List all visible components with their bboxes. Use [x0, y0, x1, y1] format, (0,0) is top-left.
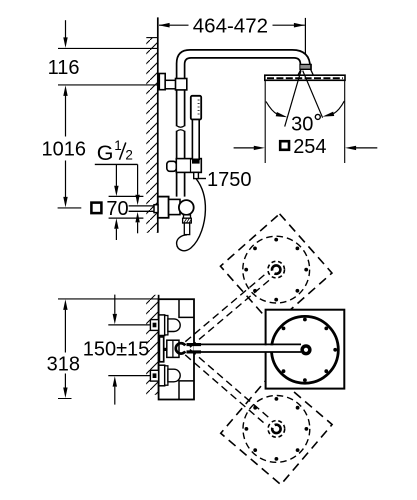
riser pipe lower segment: [177, 131, 185, 197]
riser pipe break joint: [177, 126, 185, 132]
valve body (side view): [169, 199, 180, 214]
slider block on rail: [167, 161, 177, 171]
supply pipe in wall: [129, 206, 154, 211]
dashed hub upper: [268, 261, 285, 278]
pivot ring: [176, 343, 185, 353]
supply fitting bottom: flange: [159, 365, 165, 386]
svg-text:1016: 1016: [42, 139, 87, 161]
svg-text:150±15: 150±15: [83, 339, 150, 361]
dimension 318 ticks: [58, 299, 159, 399]
dashed head circle upper: [243, 236, 310, 303]
hose outlet stem: [184, 215, 191, 218]
svg-text:G: G: [97, 141, 114, 165]
supply fitting top: flange: [159, 315, 165, 336]
dimension 464-472 extension line right: [304, 18, 306, 54]
pivot bracket: [167, 340, 179, 357]
hand shower nut: [192, 159, 200, 163]
valve body (plan view): [159, 299, 194, 399]
svg-text:254: 254: [293, 136, 326, 158]
label 1750 leader: [198, 178, 206, 180]
shower arm and riser pipe outline: [177, 50, 311, 126]
supply fitting top: escutcheon bell: [168, 319, 180, 332]
dimension 150+-15 extension lines: [108, 325, 150, 376]
supply fitting top: bolt: [150, 320, 158, 331]
supply fitting bottom: bolt: [150, 370, 158, 381]
svg-text:464-472: 464-472: [193, 15, 268, 38]
swivel angle arc arrow right: [334, 101, 345, 114]
square symbol of 254: [280, 141, 289, 150]
G 1/2 dimension line: [137, 164, 139, 194]
swivel angle fan lines: [285, 71, 323, 127]
label G 1/2 underline: [95, 163, 138, 165]
dimension 150+-15 line with arrows: [114, 295, 116, 314]
wall hatching (plan view): [146, 295, 158, 395]
dimension 254 arrows: [234, 147, 255, 149]
hose outlet knurled nut: [183, 218, 192, 223]
pivot wall plate: [159, 337, 163, 362]
svg-text:1: 1: [114, 138, 122, 153]
70 dimension line: [115, 164, 117, 186]
dimension 116 upper tick: [58, 47, 158, 49]
wall top edge: [146, 37, 158, 39]
dimension 1016 bottom tick: [58, 207, 82, 209]
wall surface line (plan view): [158, 295, 160, 395]
swivel angle arc arrow left: [266, 102, 278, 115]
shower arm (plan view): [193, 345, 304, 351]
rail boss top: [179, 299, 194, 317]
svg-text:70: 70: [106, 198, 128, 220]
hose fitting: [184, 223, 189, 235]
nozzle dots upper dashed head: [244, 238, 308, 302]
rail boss bottom: [179, 381, 194, 400]
svg-text:30: 30: [291, 113, 313, 135]
nozzle dots on head: [282, 318, 338, 382]
extension lines of 254 dimension: [265, 81, 345, 163]
head shower nozzles: [267, 77, 343, 79]
nozzle dots lower dashed head: [245, 397, 309, 461]
dashed arm lower position: [185, 350, 271, 425]
dimension 318 line with arrows: [63, 299, 67, 310]
arm hub cap on head: [300, 344, 311, 355]
svg-text:1750: 1750: [207, 169, 252, 191]
head face circle (plan view): [272, 316, 339, 383]
pivot dark pin: [164, 348, 167, 351]
wall surface line: [157, 17, 159, 232]
dimension 1016 line with arrows: [63, 85, 67, 96]
head shower plate: [265, 75, 345, 80]
70 dimension ticks: [109, 196, 144, 218]
knurled nut at shower head joint: [300, 64, 311, 69]
svg-text:2: 2: [125, 148, 133, 163]
valve knob: [179, 200, 194, 215]
dimension 464-472 line and arrows: [159, 24, 305, 26]
wall hatching (side view): [146, 38, 158, 233]
dashed hub lower: [268, 421, 285, 438]
dashed head circle lower: [243, 396, 310, 463]
ball joint flare: [298, 69, 314, 75]
dimension 116 lower tick: [58, 84, 160, 86]
dashed swivel square upper: [220, 214, 332, 326]
dimension 116 upper arrow: [65, 20, 67, 38]
hand shower head: [191, 96, 201, 120]
dashed swivel square lower: [221, 373, 332, 484]
square symbol of 70: [91, 203, 101, 214]
hose connector under slider: [194, 172, 199, 178]
thermostat valve escutcheon (side view): [158, 197, 169, 218]
head square (plan view): [266, 310, 345, 389]
svg-text:318: 318: [47, 353, 80, 375]
supply fitting bottom: escutcheon bell: [168, 369, 180, 382]
wall bracket of riser: [159, 74, 165, 90]
shower hose loop: [177, 179, 206, 251]
dashed arm upper position: [185, 274, 270, 348]
svg-text:116: 116: [48, 57, 80, 79]
hand shower handle: [192, 120, 199, 160]
